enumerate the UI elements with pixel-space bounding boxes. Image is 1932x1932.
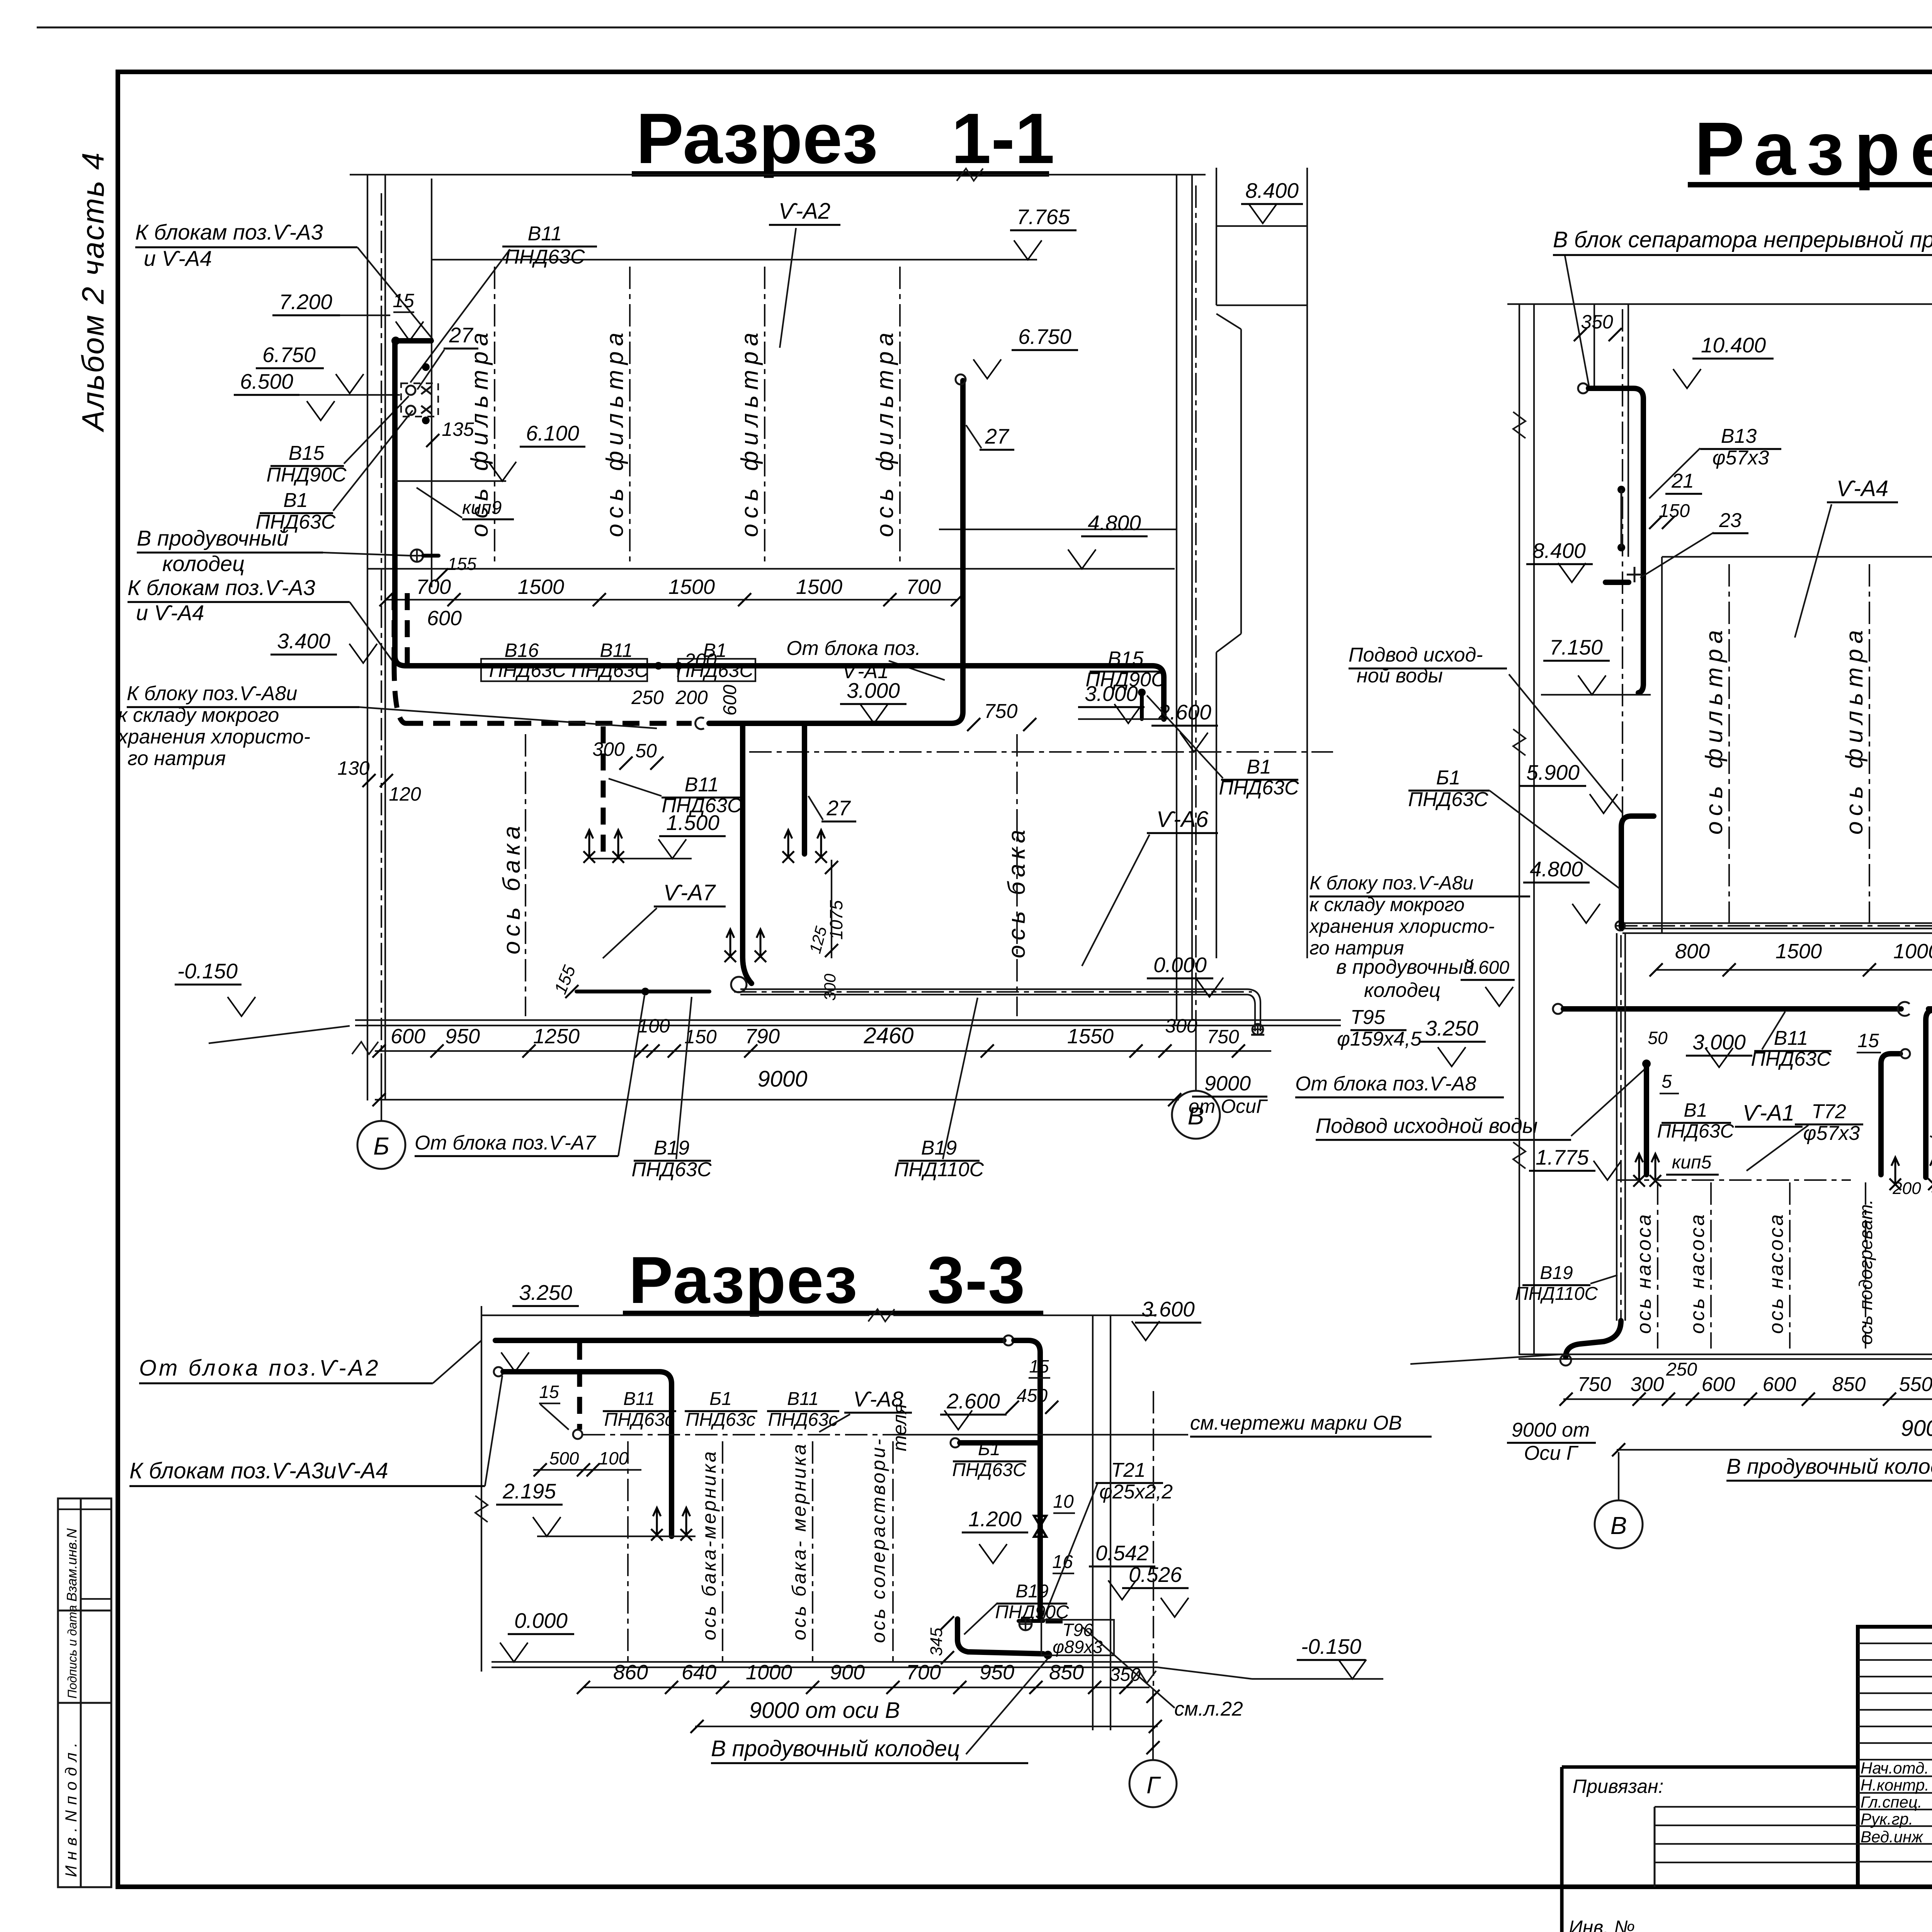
svg-text:ПНД110С: ПНД110С <box>894 1158 984 1181</box>
svg-text:В11: В11 <box>787 1389 819 1409</box>
svg-text:3.600: 3.600 <box>1463 957 1509 978</box>
svg-text:ПНД63С ПНД63С: ПНД63С ПНД63С <box>489 660 649 681</box>
svg-text:700: 700 <box>906 1661 941 1684</box>
svg-text:хранения хлористо-: хранения хлористо- <box>117 726 310 748</box>
svg-text:го натрия: го натрия <box>1310 937 1404 959</box>
svg-text:ось бака: ось бака <box>498 821 525 954</box>
svg-text:В1: В1 <box>1684 1099 1707 1121</box>
svg-text:950: 950 <box>980 1661 1014 1684</box>
svg-text:φ57х3: φ57х3 <box>1713 447 1769 469</box>
svg-text:790: 790 <box>745 1025 780 1048</box>
dims bottom <box>375 1050 1271 1052</box>
svg-text:го натрия: го натрия <box>128 747 226 770</box>
svg-text:6.750: 6.750 <box>1018 325 1071 349</box>
svg-text:ПНД110С: ПНД110С <box>1515 1284 1598 1304</box>
svg-text:Разрез: Разрез <box>629 1243 858 1317</box>
svg-text:1.775: 1.775 <box>1536 1145 1589 1169</box>
svg-text:1075: 1075 <box>826 900 846 940</box>
svg-text:300: 300 <box>1631 1373 1664 1396</box>
svg-text:600: 600 <box>427 607 462 630</box>
svg-text:9000: 9000 <box>1901 1416 1932 1441</box>
dims under pipe <box>1656 969 1932 971</box>
structure <box>1507 303 1932 305</box>
long 4.8 pipe <box>1622 922 1932 924</box>
svg-text:5.900: 5.900 <box>1526 760 1580 784</box>
left sidebar boxes <box>58 1498 111 1887</box>
svg-text:В15: В15 <box>1108 648 1144 670</box>
svg-text:ось бака- мерника: ось бака- мерника <box>788 1442 810 1640</box>
svg-text:ПНД63С: ПНД63С <box>952 1460 1026 1480</box>
svg-text:В11: В11 <box>600 639 633 661</box>
floor <box>492 1661 1158 1663</box>
svg-text:850: 850 <box>1832 1373 1866 1396</box>
svg-text:1250: 1250 <box>533 1025 580 1048</box>
svg-text:В: В <box>1611 1512 1627 1539</box>
svg-text:ось насоса: ось насоса <box>1765 1213 1787 1334</box>
svg-text:50: 50 <box>635 740 657 762</box>
svg-text:В19: В19 <box>921 1137 957 1159</box>
svg-text:2.600: 2.600 <box>946 1389 1000 1413</box>
svg-text:В19: В19 <box>654 1137 690 1159</box>
section titles <box>623 99 1932 1317</box>
svg-text:250: 250 <box>631 687 664 708</box>
svg-text:27: 27 <box>449 323 474 347</box>
svg-text:27: 27 <box>985 424 1010 448</box>
svg-text:1.500: 1.500 <box>666 811 719 835</box>
svg-text:теля: теля <box>889 1404 910 1451</box>
svg-text:100: 100 <box>599 1448 629 1468</box>
bottom dims <box>1563 1398 1932 1400</box>
svg-text:φ89х3: φ89х3 <box>1053 1637 1103 1657</box>
svg-text:В продувочный колодец: В продувочный колодец <box>711 1736 960 1761</box>
svg-text:2.600: 2.600 <box>1158 700 1211 724</box>
svg-text:1500: 1500 <box>668 575 715 599</box>
svg-text:950: 950 <box>445 1025 480 1048</box>
3.400 pipe run <box>395 656 1152 666</box>
B1 pipe at 2.6 <box>951 1438 960 1447</box>
svg-text:15: 15 <box>393 290 414 311</box>
svg-text:Подвод исход-: Подвод исход- <box>1349 644 1483 666</box>
svg-text:1000: 1000 <box>1893 940 1932 963</box>
svg-text:ось насоса: ось насоса <box>1633 1213 1655 1334</box>
right shaft between sections <box>1176 175 1177 1020</box>
svg-text:8.400: 8.400 <box>1245 179 1299 202</box>
svg-text:Б1: Б1 <box>978 1439 1000 1459</box>
svg-text:10.400: 10.400 <box>1701 333 1766 357</box>
svg-text:Ѵ-А2: Ѵ-А2 <box>779 199 830 224</box>
svg-text:От блока поз.Ѵ-А8: От блока поз.Ѵ-А8 <box>1295 1073 1476 1095</box>
svg-text:Гл.спец.: Гл.спец. <box>1861 1793 1922 1811</box>
svg-text:Б1: Б1 <box>709 1389 732 1409</box>
svg-text:В19: В19 <box>1540 1263 1573 1283</box>
svg-text:150: 150 <box>1659 501 1690 521</box>
svg-text:в продувочный: в продувочный <box>1336 956 1475 978</box>
svg-text:200: 200 <box>684 650 717 671</box>
ceiling 3.600 <box>481 1315 869 1316</box>
svg-text:345: 345 <box>927 1628 946 1656</box>
svg-text:550: 550 <box>1899 1373 1932 1396</box>
svg-text:23: 23 <box>1719 509 1742 532</box>
svg-text:К блокам поз.Ѵ-А3иѴ-А4: К блокам поз.Ѵ-А3иѴ-А4 <box>129 1458 388 1483</box>
svg-text:300: 300 <box>592 738 625 760</box>
axes <box>627 1441 629 1662</box>
svg-text:250: 250 <box>1666 1359 1697 1380</box>
svg-text:ось подогреват.: ось подогреват. <box>1856 1199 1876 1345</box>
svg-text:ось фильтра: ось фильтра <box>1841 625 1868 835</box>
svg-text:от ОсиГ: от ОсиГ <box>1189 1095 1268 1117</box>
svg-text:450: 450 <box>1017 1386 1048 1406</box>
svg-text:ось фильтра: ось фильтра <box>736 327 763 537</box>
B13 pipe top left <box>1578 383 1588 393</box>
svg-text:860: 860 <box>613 1661 648 1684</box>
svg-text:Вед.инж: Вед.инж <box>1861 1828 1923 1846</box>
svg-text:Разрез: Разрез <box>1694 107 1932 191</box>
svg-text:В блок сепаратора непрерывной: В блок сепаратора непрерывной продувки <box>1553 227 1932 252</box>
svg-text:7.200: 7.200 <box>279 290 332 314</box>
svg-text:Привязан:: Привязан: <box>1573 1776 1663 1797</box>
svg-text:50: 50 <box>1648 1028 1668 1048</box>
svg-text:Ѵ-А1: Ѵ-А1 <box>1743 1100 1794 1126</box>
svg-text:2460: 2460 <box>863 1023 913 1048</box>
svg-text:В11: В11 <box>1774 1027 1808 1049</box>
valve and lower pipework right <box>1034 1516 1046 1537</box>
svg-text:колодец: колодец <box>162 551 245 576</box>
svg-text:4.800: 4.800 <box>1088 511 1141 535</box>
svg-text:9000: 9000 <box>1204 1072 1251 1095</box>
svg-text:ПНД63С: ПНД63С <box>1408 788 1488 811</box>
svg-text:Б1: Б1 <box>1436 767 1461 789</box>
svg-text:3.250: 3.250 <box>1425 1016 1478 1040</box>
svg-text:7.765: 7.765 <box>1017 205 1070 229</box>
svg-text:15: 15 <box>1029 1356 1049 1376</box>
svg-text:6.500: 6.500 <box>240 369 293 393</box>
svg-text:К блокам поз.Ѵ-А3: К блокам поз.Ѵ-А3 <box>128 575 315 600</box>
svg-text:В11: В11 <box>528 223 562 245</box>
svg-text:300: 300 <box>821 973 839 1001</box>
svg-text:Рук.гр.: Рук.гр. <box>1861 1810 1913 1828</box>
svg-text:Подпись и дата: Подпись и дата <box>65 1605 79 1699</box>
svg-text:8.400: 8.400 <box>1532 539 1586 563</box>
svg-text:3.000: 3.000 <box>847 679 900 702</box>
svg-text:1000: 1000 <box>746 1661 792 1684</box>
pump axes <box>1657 1182 1658 1349</box>
svg-text:700: 700 <box>416 575 451 599</box>
pipes upper-left cluster <box>394 338 431 344</box>
svg-text:см.л.22: см.л.22 <box>1174 1698 1243 1720</box>
svg-text:600: 600 <box>1763 1373 1796 1396</box>
svg-text:ось бака-мерника: ось бака-мерника <box>698 1449 720 1640</box>
svg-text:0.542: 0.542 <box>1095 1541 1149 1565</box>
svg-text:φ57х3: φ57х3 <box>1803 1122 1860 1145</box>
svg-text:3-3: 3-3 <box>927 1243 1026 1317</box>
svg-text:Альбом 2 часть 4: Альбом 2 часть 4 <box>76 151 110 432</box>
svg-text:К блоку поз.Ѵ-А8и: К блоку поз.Ѵ-А8и <box>1310 872 1473 894</box>
right shaft <box>1092 1315 1094 1730</box>
svg-text:3.400: 3.400 <box>277 629 330 653</box>
svg-text:3.000: 3.000 <box>1692 1030 1746 1054</box>
svg-text:и Ѵ-А4: и Ѵ-А4 <box>144 246 212 270</box>
svg-text:Нач.отд.: Нач.отд. <box>1861 1759 1929 1777</box>
svg-text:-0.150: -0.150 <box>1301 1634 1361 1658</box>
svg-text:Н.контр.: Н.контр. <box>1861 1776 1929 1794</box>
svg-text:ось фильтра: ось фильтра <box>602 327 628 537</box>
svg-text:кип9: кип9 <box>462 498 502 518</box>
svg-text:Инв.Nподл.: Инв.Nподл. <box>62 1737 80 1877</box>
svg-text:В1: В1 <box>1247 756 1271 778</box>
svg-text:ось насоса: ось насоса <box>1686 1213 1709 1334</box>
svg-text:500: 500 <box>549 1448 579 1468</box>
svg-text:От блока поз.Ѵ-А7: От блока поз.Ѵ-А7 <box>415 1132 597 1154</box>
svg-text:750: 750 <box>984 700 1018 723</box>
svg-text:Т21: Т21 <box>1111 1459 1146 1481</box>
svg-text:15: 15 <box>1857 1030 1879 1051</box>
svg-text:ось фильтра: ось фильтра <box>1701 625 1728 835</box>
svg-text:3.250: 3.250 <box>519 1281 572 1304</box>
svg-text:Разрез: Разрез <box>636 99 878 179</box>
svg-text:135: 135 <box>442 418 474 440</box>
svg-text:ПНД63С: ПНД63С <box>631 1158 712 1181</box>
svg-text:От блока поз.Ѵ-А2: От блока поз.Ѵ-А2 <box>139 1355 381 1381</box>
svg-text:Г: Г <box>1146 1772 1161 1799</box>
svg-text:4.800: 4.800 <box>1530 857 1583 881</box>
svg-text:0.000: 0.000 <box>1153 953 1207 977</box>
grid bubbles <box>357 1028 1932 1807</box>
svg-text:В16: В16 <box>505 639 539 661</box>
svg-text:хранения хлористо-: хранения хлористо- <box>1309 915 1495 937</box>
svg-text:ПНД63с: ПНД63с <box>686 1410 756 1430</box>
filter axes <box>1728 564 1730 927</box>
svg-text:ПНД90С: ПНД90С <box>266 464 347 486</box>
dim row under floor <box>386 599 957 600</box>
svg-text:155: 155 <box>447 554 477 574</box>
svg-text:В продувочный: В продувочный <box>137 526 289 550</box>
svg-text:0.526: 0.526 <box>1129 1563 1182 1587</box>
svg-text:600: 600 <box>1702 1373 1735 1396</box>
svg-text:800: 800 <box>1675 940 1710 963</box>
svg-text:0.000: 0.000 <box>514 1609 568 1633</box>
risers down to 0.000 <box>740 723 745 957</box>
svg-text:9000 от: 9000 от <box>1512 1419 1590 1441</box>
svg-text:130: 130 <box>337 757 370 779</box>
svg-text:1550: 1550 <box>1067 1025 1114 1048</box>
svg-text:1500: 1500 <box>518 575 564 599</box>
svg-text:В продувочный колодец: В продувочный колодец <box>1726 1454 1932 1478</box>
svg-text:кип5: кип5 <box>1672 1152 1712 1173</box>
svg-text:От блока поз.: От блока поз. <box>786 637 921 660</box>
svg-text:120: 120 <box>389 783 421 805</box>
svg-text:5: 5 <box>1662 1071 1672 1092</box>
svg-text:850: 850 <box>1049 1661 1084 1684</box>
svg-text:см.чертежи марки ОВ: см.чертежи марки ОВ <box>1190 1412 1402 1434</box>
svg-text:750: 750 <box>1207 1026 1239 1048</box>
svg-text:6.750: 6.750 <box>262 343 316 367</box>
svg-text:200: 200 <box>675 687 708 708</box>
svg-text:9000: 9000 <box>757 1066 807 1092</box>
svg-text:300: 300 <box>1165 1015 1197 1037</box>
svg-text:600: 600 <box>720 685 740 716</box>
svg-text:15: 15 <box>539 1382 559 1402</box>
svg-text:ось фильтра: ось фильтра <box>872 327 898 537</box>
dims <box>583 1687 1150 1688</box>
svg-text:В1: В1 <box>283 489 308 512</box>
svg-text:700: 700 <box>906 575 941 599</box>
privyazan box <box>1562 1767 1858 1932</box>
svg-text:Б: Б <box>373 1132 389 1160</box>
svg-text:В19: В19 <box>1015 1581 1048 1602</box>
svg-text:900: 900 <box>830 1661 865 1684</box>
svg-text:К блокам поз.Ѵ-А3: К блокам поз.Ѵ-А3 <box>135 220 323 244</box>
svg-text:750: 750 <box>1578 1373 1611 1396</box>
svg-text:6.100: 6.100 <box>526 421 579 445</box>
svg-text:Оси Г: Оси Г <box>1524 1442 1579 1464</box>
svg-text:φ159х4,5: φ159х4,5 <box>1337 1028 1422 1050</box>
title block <box>1858 1627 1932 1922</box>
svg-text:Ѵ-А7: Ѵ-А7 <box>663 880 716 905</box>
svg-text:1.200: 1.200 <box>968 1507 1022 1531</box>
main pipes <box>495 1338 1004 1343</box>
svg-text:640: 640 <box>682 1661 716 1684</box>
svg-text:Ѵ-А6: Ѵ-А6 <box>1156 807 1209 832</box>
3.600 pipe <box>1553 1004 1563 1014</box>
svg-text:В11: В11 <box>623 1389 655 1409</box>
svg-text:7.150: 7.150 <box>1549 635 1603 659</box>
svg-text:9000 от оси В: 9000 от оси В <box>749 1698 900 1723</box>
svg-text:ось солераствори-: ось солераствори- <box>867 1437 889 1643</box>
svg-text:2.195: 2.195 <box>502 1479 556 1503</box>
svg-text:В15: В15 <box>289 442 325 464</box>
svg-text:1500: 1500 <box>796 575 842 599</box>
sheet edge lines <box>37 27 1932 29</box>
svg-text:В11: В11 <box>685 774 719 796</box>
structure walls <box>350 174 958 175</box>
svg-text:600: 600 <box>391 1025 425 1048</box>
svg-text:Ѵ-А4: Ѵ-А4 <box>1837 476 1888 501</box>
dashed 3.6 pipe and 27 riser <box>406 721 692 726</box>
svg-text:1-1: 1-1 <box>951 99 1054 179</box>
svg-text:200: 200 <box>1892 1179 1921 1198</box>
svg-text:В13: В13 <box>1721 425 1757 447</box>
ground <box>355 1019 1341 1021</box>
svg-text:21: 21 <box>1671 470 1694 492</box>
svg-text:Подвод исходной воды: Подвод исходной воды <box>1316 1114 1537 1138</box>
svg-text:Т72: Т72 <box>1811 1100 1846 1123</box>
bottom long pipe <box>743 957 752 983</box>
svg-text:3.600: 3.600 <box>1141 1297 1195 1321</box>
svg-text:Т95: Т95 <box>1350 1006 1386 1029</box>
svg-text:1500: 1500 <box>1776 940 1822 963</box>
left drop with big elbow <box>1616 933 1617 1321</box>
B19 low pipe <box>957 1619 1043 1654</box>
svg-text:Взам.инв.N: Взам.инв.N <box>64 1528 80 1602</box>
svg-text:К блоку поз.Ѵ-А8и: К блоку поз.Ѵ-А8и <box>127 682 297 705</box>
svg-text:и Ѵ-А4: и Ѵ-А4 <box>136 600 204 625</box>
svg-text:ПНД63с: ПНД63с <box>604 1410 674 1430</box>
svg-text:колодец: колодец <box>1364 979 1440 1002</box>
svg-text:27: 27 <box>826 796 851 820</box>
svg-text:ПНД63С: ПНД63С <box>505 246 585 268</box>
svg-text:100: 100 <box>638 1015 670 1037</box>
svg-text:-0.150: -0.150 <box>177 959 238 983</box>
svg-text:Инв. №: Инв. № <box>1569 1917 1635 1932</box>
svg-text:10: 10 <box>1053 1492 1074 1512</box>
